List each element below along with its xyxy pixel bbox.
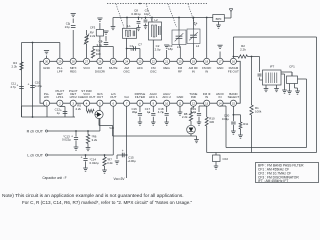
svg-text:30: 30: [45, 59, 49, 63]
svg-text:2.0p: 2.0p: [155, 47, 161, 51]
svg-text:25: 25: [112, 59, 116, 63]
svg-text:IN: IN: [205, 95, 208, 99]
svg-text:L4: L4: [196, 44, 200, 48]
svg-text:100: 100: [96, 52, 101, 56]
svg-text:2.2k: 2.2k: [182, 115, 188, 119]
svg-text:2.2k: 2.2k: [240, 48, 246, 52]
svg-text:SELECT: SELECT: [228, 95, 240, 99]
svg-text:RF: RF: [178, 69, 182, 73]
svg-text:+: +: [16, 84, 18, 88]
svg-text:+: +: [81, 156, 83, 160]
svg-text:18: 18: [205, 59, 209, 63]
svg-text:L2: L2: [154, 18, 158, 22]
svg-text:16: 16: [232, 59, 236, 63]
svg-text:3.2k: 3.2k: [107, 161, 113, 165]
svg-text:18p: 18p: [168, 47, 173, 51]
svg-text:IN: IN: [192, 69, 195, 73]
svg-text:3.2k: 3.2k: [92, 138, 98, 142]
svg-text:GND: GND: [43, 66, 51, 70]
svg-text:LPF1: LPF1: [56, 95, 64, 99]
svg-text:15: 15: [232, 101, 236, 105]
svg-text:28: 28: [72, 59, 76, 63]
svg-text:CF3: CF3: [90, 26, 96, 30]
svg-text:27: 27: [85, 59, 89, 63]
svg-text:12: 12: [192, 101, 196, 105]
svg-text:30μ: 30μ: [132, 110, 137, 114]
svg-text:IFT : AM 455kHz IFT: IFT : AM 455kHz IFT: [258, 179, 288, 183]
svg-text:REG: REG: [163, 66, 170, 70]
svg-text:L ch OUT: L ch OUT: [27, 153, 43, 157]
svg-text:IN: IN: [219, 95, 222, 99]
svg-text:LPF: LPF: [57, 69, 63, 73]
svg-text:L1: L1: [127, 24, 131, 28]
svg-text:0.022μ: 0.022μ: [62, 138, 71, 142]
svg-text:LPF: LPF: [44, 95, 50, 99]
svg-text:CF1: CF1: [289, 65, 295, 69]
svg-text:MUTE: MUTE: [109, 66, 118, 70]
svg-text:+: +: [71, 135, 73, 139]
svg-text:AFC 1: AFC 1: [149, 95, 158, 99]
svg-text:+: +: [122, 149, 124, 153]
svg-text:IND: IND: [191, 95, 197, 99]
svg-text:C4: C4: [194, 22, 198, 26]
svg-text:Vcc=3V: Vcc=3V: [113, 177, 125, 181]
svg-text:AFC 2: AFC 2: [162, 95, 171, 99]
svg-text:1μ: 1μ: [57, 111, 61, 115]
svg-text:+: +: [27, 83, 29, 87]
svg-text:IN: IN: [205, 69, 208, 73]
svg-text:2.2μ: 2.2μ: [190, 110, 196, 114]
svg-text:330: 330: [209, 120, 214, 124]
svg-text:14: 14: [219, 101, 223, 105]
svg-text:C7: C7: [138, 43, 142, 47]
svg-text:20: 20: [178, 59, 182, 63]
svg-text:OUT: OUT: [97, 95, 104, 99]
svg-text:IFT: IFT: [270, 65, 275, 69]
svg-text:LPF2: LPF2: [70, 95, 78, 99]
svg-text:OSC: OSC: [150, 69, 157, 73]
svg-text:13: 13: [205, 101, 209, 105]
svg-text:GND: GND: [217, 66, 225, 70]
svg-text:AFC: AFC: [137, 66, 144, 70]
svg-text:Vcc: Vcc: [109, 126, 114, 130]
svg-text:For C, R (C13, C14, R6, R7) ma: For C, R (C13, C14, R6, R7) marked*, ref…: [22, 200, 193, 205]
svg-text:2.2k: 2.2k: [12, 64, 18, 68]
svg-text:100k: 100k: [255, 110, 262, 114]
svg-text:OSC: OSC: [123, 69, 130, 73]
svg-text:10: 10: [165, 101, 169, 105]
svg-text:Capacitor unit : F: Capacitor unit : F: [42, 176, 66, 180]
svg-text:21: 21: [165, 59, 169, 63]
svg-text:VCO: VCO: [83, 66, 90, 70]
svg-text:4.7μ: 4.7μ: [158, 110, 164, 114]
svg-text:CF2: CF2: [223, 157, 229, 161]
svg-text:DISCRI: DISCRI: [95, 69, 105, 73]
svg-text:1μ: 1μ: [147, 110, 151, 114]
svg-text:22: 22: [152, 59, 156, 63]
svg-text:17: 17: [219, 59, 223, 63]
svg-text:10μ: 10μ: [144, 12, 149, 16]
svg-text:FE OUT: FE OUT: [228, 69, 239, 73]
svg-text:11: 11: [179, 101, 182, 105]
svg-text:0.022μ: 0.022μ: [90, 161, 99, 165]
svg-text:4.7μ: 4.7μ: [10, 85, 16, 89]
svg-text:GND: GND: [177, 95, 185, 99]
svg-text:0.001μ: 0.001μ: [131, 12, 141, 16]
svg-text:REG: REG: [70, 69, 77, 73]
svg-text:13μ: 13μ: [65, 25, 70, 29]
svg-text:2.2k: 2.2k: [75, 107, 81, 111]
svg-text:2.2k: 2.2k: [90, 34, 96, 38]
svg-text:Vcc: Vcc: [124, 95, 130, 99]
svg-text:0.01μ: 0.01μ: [222, 117, 230, 121]
svg-text:+: +: [141, 17, 143, 21]
svg-text:29: 29: [58, 59, 62, 63]
svg-text:CHECK OUT: CHECK OUT: [78, 95, 96, 99]
svg-text:FILTER: FILTER: [135, 95, 146, 99]
svg-text:BPF: BPF: [216, 17, 222, 21]
svg-text:0.47μ: 0.47μ: [35, 84, 43, 88]
svg-text:26: 26: [98, 59, 102, 63]
svg-text:OUT: OUT: [110, 95, 117, 99]
svg-text:R11: R11: [243, 122, 248, 126]
svg-text:7p: 7p: [130, 47, 134, 51]
svg-text:19: 19: [192, 59, 196, 63]
svg-text:R ch OUT: R ch OUT: [27, 129, 44, 133]
svg-text:23: 23: [138, 59, 142, 63]
svg-text:+100μ: +100μ: [127, 159, 136, 163]
svg-text:Note) This circuit is an appli: Note) This circuit is an application exa…: [2, 193, 184, 199]
svg-text:24: 24: [125, 59, 129, 63]
svg-text:+: +: [60, 109, 62, 113]
